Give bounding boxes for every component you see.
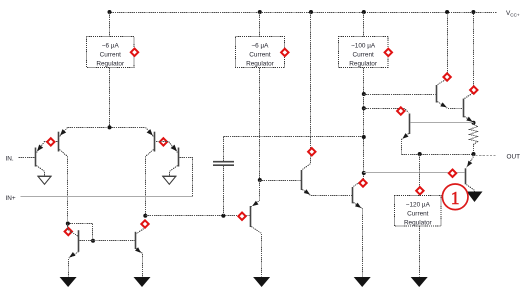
transistor Q10 (NPN darlington driver) <box>437 13 463 109</box>
ground arrow Q9 emitter <box>354 277 371 287</box>
marker diamond Q6 collector <box>141 220 148 227</box>
ground arrow 120uA <box>411 277 428 287</box>
transistor Q9 (NPN) <box>353 173 364 277</box>
wire box1 top <box>109 13 111 37</box>
svg-text:1: 1 <box>451 188 460 208</box>
node rail-Q10 <box>445 10 449 14</box>
svg-text:Current: Current <box>249 52 271 59</box>
wire cap top to 100uA bus <box>224 136 364 138</box>
marker diamond 120uA top <box>416 187 423 194</box>
wire IN+ line <box>21 196 193 198</box>
current regulator box ~120uA <box>395 196 442 227</box>
marker diamond Q13 base <box>449 170 456 177</box>
wire 120uA bottom <box>419 226 421 277</box>
wire input emitter rail <box>68 127 145 129</box>
transistor Q6 (NPN mirror output) <box>135 228 146 277</box>
wire Q2 collector to mirror <box>68 224 93 241</box>
node mirror base rail <box>91 239 95 243</box>
marker diamond Q3-Q4 <box>160 138 167 145</box>
ground arrow Q6 emitter <box>134 277 151 287</box>
annotation circled 1 <box>442 184 468 210</box>
node 6uA to emitter rail <box>108 125 112 129</box>
marker diamond Q8 collector <box>308 148 315 155</box>
node out-120uA tap <box>418 152 422 156</box>
marker diamond Q10 collector <box>443 73 450 80</box>
wire out to 120uA regulator <box>419 155 421 196</box>
current regulator box ~100uA <box>339 37 388 68</box>
current regulator box ~6uA (left) <box>87 37 135 68</box>
node Q9 collector bus <box>362 171 366 175</box>
node rail-Q11 <box>471 10 475 14</box>
ground arrow under Q1 <box>38 176 52 184</box>
resistor Ro <box>470 123 478 155</box>
svg-text:~6 µA: ~6 µA <box>102 43 120 50</box>
wire VCC+ rail <box>109 12 497 14</box>
node Q11 emitter / R / Q12 base <box>472 121 476 125</box>
ground arrow Q5 emitter <box>60 277 77 287</box>
wire mirror base rail <box>80 240 135 242</box>
wire box1 bottom <box>109 68 111 128</box>
wire box3 bottom bus <box>363 68 365 173</box>
wire box3 top <box>363 13 365 37</box>
wire mirror node to Q7 base <box>146 215 250 217</box>
marker diamond Q5 collector <box>65 228 72 235</box>
transistor Q11 (NPN output) <box>464 13 474 123</box>
node Q7 emitter / Q8 base <box>258 178 262 182</box>
transistor Q1 (PNP, IN- follower) <box>36 142 58 177</box>
label IN- <box>6 155 14 162</box>
wire Q10 base <box>364 94 436 96</box>
transistor Q12 (NPN sense) <box>402 114 410 155</box>
svg-text:Regulator: Regulator <box>246 61 275 68</box>
current regulator box ~6uA (middle) <box>236 37 285 68</box>
wire Q4 base riser <box>180 158 193 197</box>
label OUT <box>507 154 521 161</box>
label VCC+ <box>506 10 520 18</box>
svg-text:~6 µA: ~6 µA <box>251 43 269 50</box>
svg-text:Current: Current <box>407 211 429 218</box>
svg-text:~120 µA: ~120 µA <box>406 202 431 209</box>
transistor Q8 (NPN follower) <box>302 164 353 196</box>
wire box2 bottom to Q7/Q8 node <box>259 68 261 181</box>
marker diamond Q7 base <box>238 213 245 220</box>
svg-text:OUT: OUT <box>507 154 521 161</box>
transistor Q4 (PNP, IN+ follower) <box>156 142 179 177</box>
ground arrow Q7 collector <box>253 277 270 287</box>
wire box2 top <box>259 13 261 37</box>
wire Q8 base <box>260 180 301 182</box>
wire output line <box>402 154 474 156</box>
wire Q12 collector <box>364 109 409 113</box>
wire rail to Q8 collector <box>310 13 312 164</box>
label IN+ <box>6 195 16 202</box>
wire IN- to Q1 base <box>19 157 35 159</box>
svg-text:~100 µA: ~100 µA <box>351 43 376 50</box>
node cap bottom <box>221 214 225 218</box>
wire Q13 base <box>364 172 465 174</box>
svg-text:VCC+: VCC+ <box>506 10 520 18</box>
transistor Q7 (PNP gain stage) <box>251 181 262 277</box>
ground arrow Q13 collector <box>467 192 483 203</box>
transistor Q13 (PNP output sink) <box>466 155 475 192</box>
node mirror base loop <box>66 222 70 226</box>
marker diamond Q1-Q2 <box>47 138 54 145</box>
node out-resistor <box>472 152 476 156</box>
wire OUT stub <box>476 155 496 157</box>
svg-text:Current: Current <box>352 52 374 59</box>
marker diamond Q9 collector <box>359 179 366 186</box>
svg-text:IN+: IN+ <box>6 195 16 202</box>
transistor Q3 (PNP, non-inverting pair) <box>146 128 155 216</box>
transistor Q5 (NPN mirror, diode-connected) <box>68 224 79 277</box>
svg-text:Regulator: Regulator <box>404 220 433 227</box>
svg-text:Regulator: Regulator <box>349 61 378 68</box>
marker diamond on middle 6uA box <box>281 49 288 56</box>
node rail-box2 <box>258 10 262 14</box>
node rail-box1 <box>108 10 112 14</box>
marker diamond Q12 collector <box>397 107 404 114</box>
node cap-bus junction <box>362 135 366 139</box>
capacitor Cc <box>213 137 234 216</box>
wire Q12 base <box>411 122 474 124</box>
marker diamond on 100uA box <box>385 49 392 56</box>
node rail-Q8 <box>309 10 313 14</box>
node Q6 collector <box>143 214 147 218</box>
svg-text:Current: Current <box>100 52 122 59</box>
svg-text:IN.: IN. <box>6 155 14 162</box>
node rail-box3 <box>362 10 366 14</box>
node bus-Q10 base <box>362 92 366 96</box>
ground arrow under Q4 <box>162 176 176 184</box>
marker diamond Q11 collector <box>470 86 477 93</box>
node bus-Q12 collector <box>362 106 366 110</box>
svg-text:Regulator: Regulator <box>96 61 125 68</box>
marker diamond on left 6uA box <box>131 49 138 56</box>
transistor Q2 (PNP, inverting input pair) <box>59 128 68 224</box>
